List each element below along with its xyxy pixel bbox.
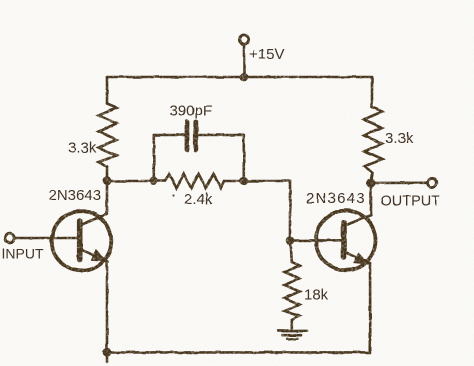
wire top supply rail	[107, 76, 372, 79]
wire output node to Q2 collector	[370, 183, 373, 215]
node A	[103, 177, 110, 184]
terminal OUTPUT	[428, 178, 437, 187]
svg-text:2.4k: 2.4k	[184, 191, 213, 208]
svg-text:18k: 18k	[304, 287, 329, 304]
node C	[240, 177, 247, 184]
wire corner down to base node	[289, 181, 292, 241]
wire node A to Q1 collector	[106, 181, 109, 214]
resistor R2 2.4k	[154, 174, 244, 188]
svg-text:INPUT: INPUT	[2, 246, 44, 262]
wire capacitor right riser	[243, 135, 246, 181]
resistor R3 18k	[285, 241, 300, 331]
wire Q2 base lead	[290, 239, 342, 242]
transistor Q2 2N3643	[316, 211, 376, 271]
terminal INPUT	[5, 234, 14, 243]
svg-text:OUTPUT: OUTPUT	[381, 194, 441, 210]
wire node C to corner	[244, 180, 290, 183]
wire output lead	[371, 182, 427, 185]
svg-text:3.3k: 3.3k	[385, 130, 414, 147]
resistor R1 3.3k	[99, 104, 117, 167]
svg-text:+15V: +15V	[249, 46, 284, 63]
wire right branch upper	[371, 77, 374, 107]
resistor R4 3.3k	[364, 107, 382, 173]
wire left branch upper	[106, 77, 109, 104]
ground	[278, 331, 307, 339]
terminal +15V	[239, 35, 248, 77]
svg-text:2N3643: 2N3643	[306, 190, 366, 207]
wire Q1 emitter to bottom rail	[106, 262, 109, 353]
node output	[367, 179, 375, 187]
transistor Q1 2N3643	[52, 211, 112, 271]
wire capacitor top right	[198, 134, 244, 137]
svg-text:390pF: 390pF	[170, 103, 213, 120]
node bottom left corner	[103, 349, 110, 362]
node supply junction	[240, 73, 247, 80]
svg-text:2N3643: 2N3643	[49, 187, 102, 204]
label R2 2.4k	[172, 191, 212, 208]
wire input lead	[14, 237, 78, 240]
wire R1 to node A	[106, 167, 109, 181]
wire capacitor top left	[154, 134, 185, 137]
svg-text:3.3k: 3.3k	[68, 140, 97, 157]
wire Q2 emitter to bottom rail	[369, 263, 372, 352]
wire capacitor left riser	[153, 135, 156, 181]
wire bottom rail	[107, 351, 371, 354]
wire node A to node B	[107, 180, 154, 183]
wire R4 to output node	[371, 173, 373, 183]
node D base junction	[286, 237, 293, 244]
capacitor C1 plates	[187, 122, 196, 150]
node B	[150, 177, 157, 184]
